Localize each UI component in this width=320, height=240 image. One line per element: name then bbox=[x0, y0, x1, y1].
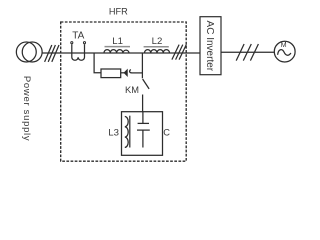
svg-text:L2: L2 bbox=[152, 36, 163, 47]
svg-text:C: C bbox=[163, 127, 170, 137]
svg-text:L1: L1 bbox=[112, 36, 123, 47]
svg-text:AC Inverter: AC Inverter bbox=[204, 21, 215, 72]
svg-text:HFR: HFR bbox=[109, 7, 128, 17]
svg-text:KM: KM bbox=[125, 85, 139, 95]
svg-text:Power supply: Power supply bbox=[21, 76, 32, 141]
svg-text:TA: TA bbox=[72, 31, 84, 42]
svg-text:L3: L3 bbox=[108, 127, 119, 138]
svg-text:M: M bbox=[281, 40, 287, 49]
